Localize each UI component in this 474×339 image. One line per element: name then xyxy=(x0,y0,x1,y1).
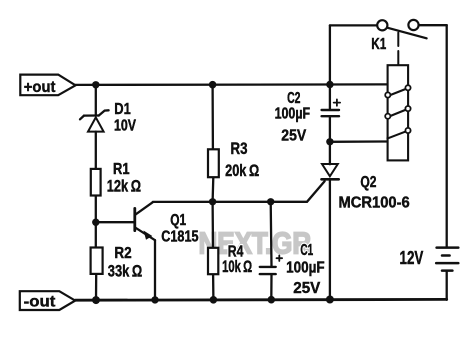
svg-text:Q1: Q1 xyxy=(170,212,186,229)
svg-text:20k Ω: 20k Ω xyxy=(225,161,259,180)
svg-text:MCR100-6: MCR100-6 xyxy=(339,195,410,212)
svg-text:R3: R3 xyxy=(231,139,248,158)
svg-text:D1: D1 xyxy=(114,101,131,118)
svg-text:-out: -out xyxy=(24,293,56,310)
svg-text:+out: +out xyxy=(24,79,56,96)
svg-text:Q2: Q2 xyxy=(360,174,376,191)
svg-text:10k Ω: 10k Ω xyxy=(222,257,252,276)
svg-text:C1: C1 xyxy=(300,242,313,259)
svg-text:10V: 10V xyxy=(114,117,136,134)
svg-text:100µF: 100µF xyxy=(275,105,311,122)
svg-text:R2: R2 xyxy=(114,245,131,262)
svg-text:25V: 25V xyxy=(293,280,320,297)
svg-text:R1: R1 xyxy=(113,161,130,178)
svg-text:C1815: C1815 xyxy=(161,228,198,245)
svg-text:25V: 25V xyxy=(281,128,306,145)
svg-text:K1: K1 xyxy=(371,36,386,53)
svg-text:33k Ω: 33k Ω xyxy=(108,261,143,280)
svg-text:100µF: 100µF xyxy=(286,260,325,277)
svg-text:12k Ω: 12k Ω xyxy=(107,177,141,196)
svg-text:12V: 12V xyxy=(400,248,424,268)
